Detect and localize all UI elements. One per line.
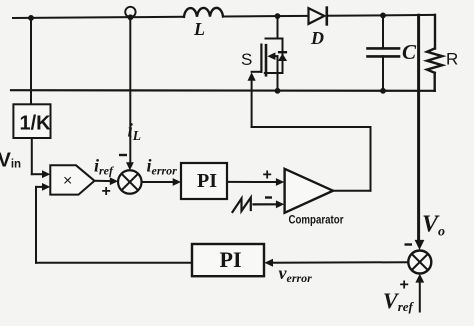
svg-text:Comparator: Comparator [289, 215, 344, 227]
svg-text:+: + [400, 277, 409, 294]
svg-text:C: C [402, 40, 417, 64]
svg-text:1/K: 1/K [20, 113, 52, 135]
svg-text:PI: PI [197, 170, 217, 192]
svg-text:×: × [63, 173, 72, 190]
svg-text:PI: PI [220, 247, 242, 272]
svg-text:D: D [310, 28, 324, 48]
svg-text:L: L [193, 19, 205, 39]
svg-text:+: + [102, 183, 111, 200]
svg-text:+: + [263, 167, 272, 184]
svg-text:R: R [446, 50, 458, 69]
svg-text:S: S [241, 50, 252, 69]
